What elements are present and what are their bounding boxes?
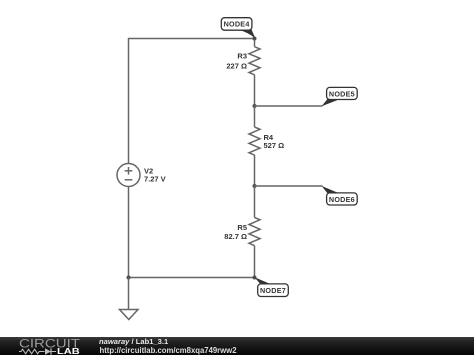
junction dot node D (R4/R5 junction) xyxy=(253,184,257,188)
logo resistor symbol xyxy=(19,349,45,354)
node flag NODE7 xyxy=(255,277,289,296)
svg-text:LAB: LAB xyxy=(57,346,80,355)
svg-text:http://circuitlab.com/cm8xqa74: http://circuitlab.com/cm8xqa749rww2 xyxy=(100,345,237,355)
resistor R3 xyxy=(249,39,260,107)
node flag NODE5 xyxy=(322,87,358,106)
footer bar xyxy=(0,337,474,355)
node flag NODE4 xyxy=(221,18,255,38)
svg-text:R3: R3 xyxy=(237,52,247,61)
svg-text:NODE5: NODE5 xyxy=(329,89,355,98)
wire to NODE6 xyxy=(255,185,323,187)
R5 value labels xyxy=(224,223,247,241)
wire to NODE5 xyxy=(255,105,323,107)
svg-text:227 Ω: 227 Ω xyxy=(226,61,247,70)
wire left vertical upper (top corner to V2 plus terminal) xyxy=(128,38,130,164)
wire top horizontal (node A to NODE4 node) xyxy=(129,38,255,40)
wire left vertical lower (V2 minus terminal to bottom corner) xyxy=(128,187,130,278)
resistor R4 xyxy=(249,106,260,186)
voltage source V2 xyxy=(117,164,140,187)
resistor R5 xyxy=(249,186,260,278)
svg-text:82.7 Ω: 82.7 Ω xyxy=(224,232,247,241)
svg-text:R5: R5 xyxy=(237,223,247,232)
junction dot node C (R3/R4 junction) xyxy=(253,104,257,108)
svg-text:7.27 V: 7.27 V xyxy=(144,175,166,184)
wire bottom horizontal (ground junction to NODE7 node) xyxy=(129,277,255,279)
svg-text:NODE7: NODE7 xyxy=(260,286,286,295)
junction node E (NODE7 attach point) xyxy=(253,276,257,280)
svg-text:NODE6: NODE6 xyxy=(329,195,355,204)
R3 value labels xyxy=(226,52,247,71)
junction dot ground node xyxy=(127,276,131,280)
svg-text:527 Ω: 527 Ω xyxy=(264,141,285,150)
node flag NODE6 xyxy=(322,186,358,205)
svg-text:NODE4: NODE4 xyxy=(224,20,250,29)
ground xyxy=(120,278,139,320)
logo diode symbol xyxy=(45,348,56,354)
R4 value labels xyxy=(264,133,285,150)
V2 value label xyxy=(144,167,166,184)
junction node B (NODE4 attach point) xyxy=(253,37,257,41)
